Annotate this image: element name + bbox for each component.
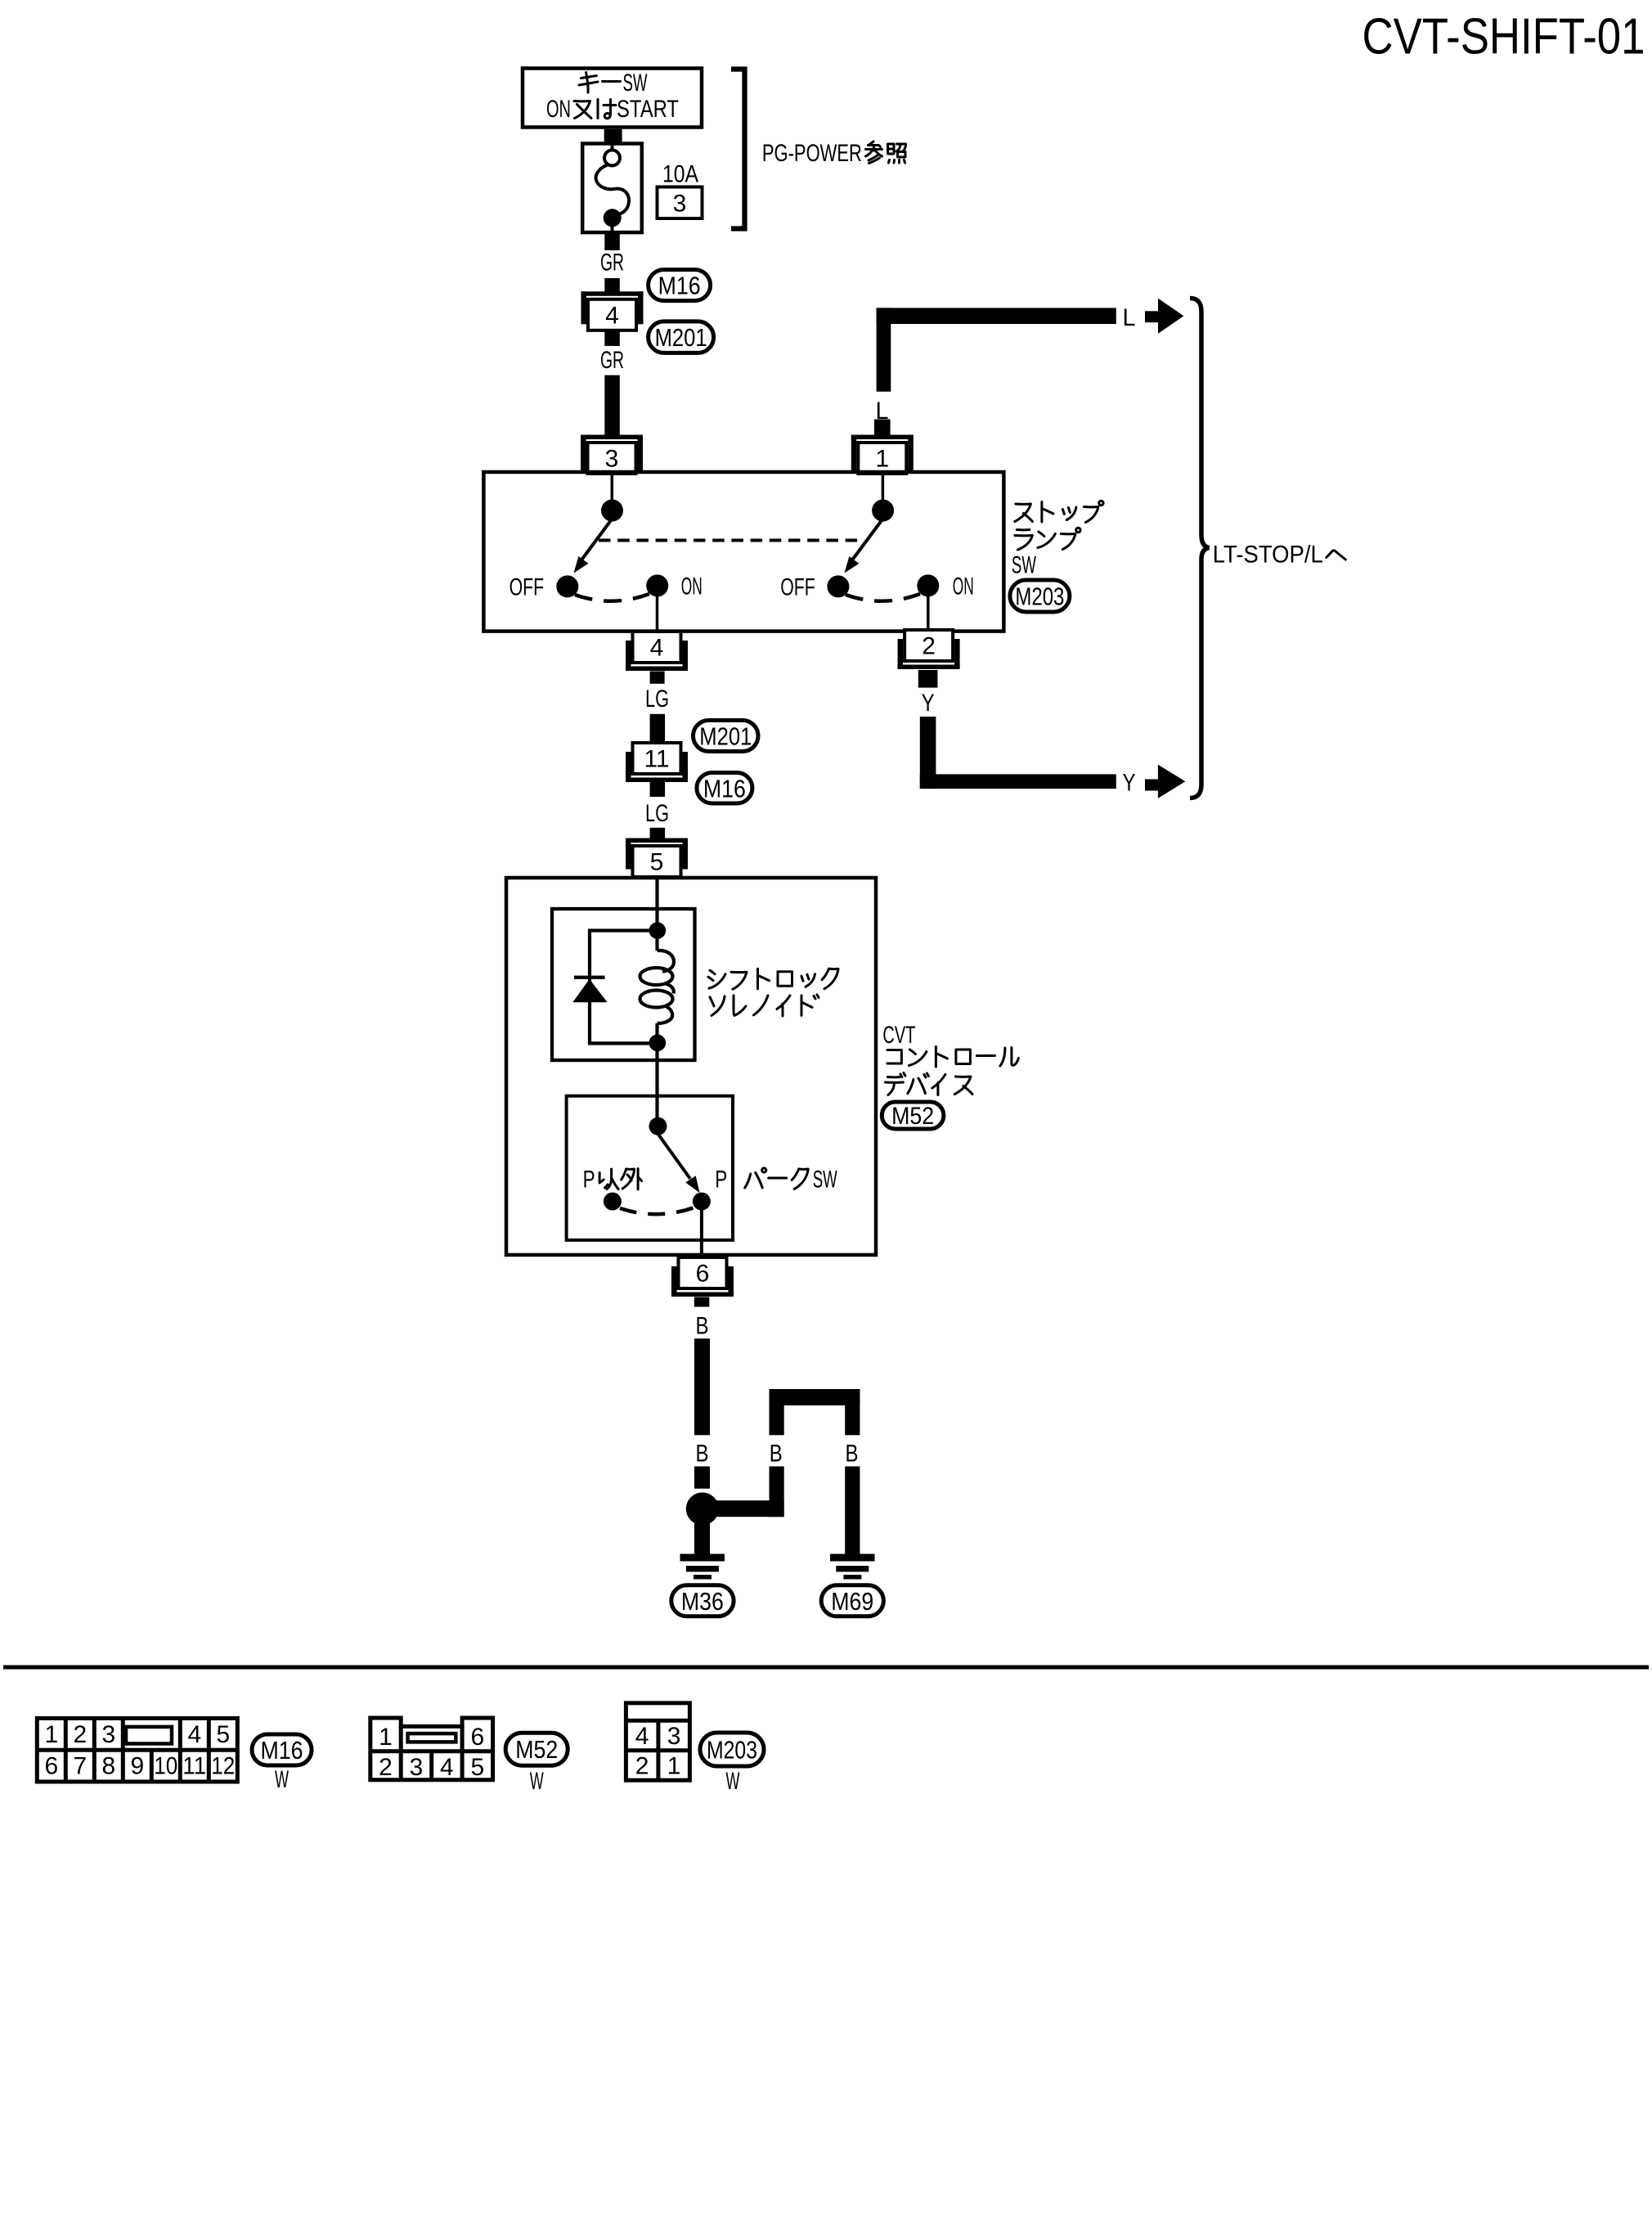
connector pin 4 of stop lamp SW <box>633 632 681 663</box>
svg-text:LG: LG <box>645 686 669 713</box>
solenoid top node <box>649 922 667 939</box>
connector name oval M16 (table) <box>252 1734 312 1765</box>
park switch pivot contact <box>649 1117 667 1135</box>
park switch arm (arrow to P) <box>658 1134 691 1179</box>
svg-text:CVT-SHIFT-01: CVT-SHIFT-01 <box>1362 9 1645 65</box>
thick wire GR down to stop lamp switch <box>604 375 620 435</box>
wire stub above connector 5 <box>650 828 666 839</box>
wire stub above connector 1 <box>874 420 891 436</box>
right OFF contact <box>827 575 849 597</box>
ground symbol left <box>680 1554 725 1580</box>
svg-text:4: 4 <box>650 635 664 662</box>
arrow L (off-page to LT-STOP/L) <box>1145 311 1159 322</box>
svg-text:12: 12 <box>211 1753 235 1780</box>
svg-text:P: P <box>715 1167 727 1194</box>
diode D (flyback) <box>574 976 605 979</box>
svg-text:W: W <box>275 1766 289 1793</box>
separator rule <box>3 1666 1649 1670</box>
wire junction horizontal arm <box>712 1500 784 1517</box>
svg-text:3: 3 <box>605 446 619 473</box>
svg-text:LT-STOP/L: LT-STOP/L <box>1213 542 1323 569</box>
svg-text:2: 2 <box>922 633 936 660</box>
svg-text:GR: GR <box>600 250 624 277</box>
wire park P contact to pin 6 <box>700 1210 703 1257</box>
svg-text:2: 2 <box>379 1754 393 1781</box>
stop lamp switch box M203 <box>483 472 1003 632</box>
svg-text:1: 1 <box>667 1753 681 1780</box>
label park SW <box>745 1168 809 1189</box>
svg-text:M69: M69 <box>831 1587 873 1616</box>
svg-text:CVT: CVT <box>882 1022 915 1049</box>
wire stub below pin 4 <box>650 672 665 684</box>
key slot M52 <box>408 1733 456 1742</box>
thick wire Y (vertical) <box>920 717 936 789</box>
svg-text:5: 5 <box>650 849 664 876</box>
fuse F 10A (box 3) <box>582 144 642 233</box>
svg-text:3: 3 <box>673 191 687 218</box>
svg-text:5: 5 <box>216 1721 230 1748</box>
svg-text:4: 4 <box>605 302 619 329</box>
svg-text:Y: Y <box>1123 770 1136 797</box>
label CVT control device (device) <box>885 1073 972 1095</box>
connector pin 6 of CVT control device <box>679 1257 727 1288</box>
connector pin layout M16 <box>37 1718 237 1782</box>
left switch arm (arrow to OFF) <box>578 519 613 564</box>
svg-text:M16: M16 <box>658 272 701 300</box>
svg-text:GR: GR <box>600 347 624 374</box>
wire middle leg vertical <box>770 1467 784 1517</box>
connector name oval M201 <box>694 721 759 752</box>
left OFF contact <box>556 575 578 597</box>
left ON contact <box>646 574 668 596</box>
svg-text:M203: M203 <box>707 1736 757 1765</box>
dashed link line between switch poles <box>599 539 860 542</box>
svg-text:11: 11 <box>182 1753 206 1780</box>
svg-text:OFF: OFF <box>510 574 545 601</box>
svg-text:10A: 10A <box>662 161 698 188</box>
svg-text:SW: SW <box>1012 552 1036 579</box>
right switch pole wire from pin 1 <box>882 474 885 503</box>
svg-text:2: 2 <box>635 1753 649 1780</box>
ground name oval M69 <box>821 1585 883 1616</box>
wire ON contact to pin 2 <box>927 596 930 630</box>
label stop lamp SW (stop) <box>1015 501 1103 522</box>
svg-text:6: 6 <box>696 1261 710 1288</box>
power source box: key SW ON or START <box>523 69 702 128</box>
label stop lamp SW (lamp) <box>1015 528 1080 550</box>
label shift lock solenoid (line 2) <box>710 995 819 1016</box>
connector pin 5 of CVT control device <box>626 839 688 843</box>
wire ON contact to pin 4 <box>656 596 659 630</box>
dashed throw arc (right switch) <box>846 594 920 601</box>
svg-text:M16: M16 <box>703 774 746 803</box>
park P contact <box>693 1193 711 1211</box>
connector name oval M203 <box>1010 580 1070 612</box>
svg-text:B: B <box>696 1313 709 1340</box>
svg-text:M16: M16 <box>261 1736 303 1765</box>
svg-text:5: 5 <box>471 1754 485 1781</box>
wire pin 5 to solenoid <box>655 876 658 924</box>
svg-text:4: 4 <box>187 1721 201 1748</box>
ground name oval M36 <box>671 1585 734 1616</box>
park switch sub-box <box>567 1096 733 1240</box>
wire n-bridge (left leg) <box>770 1389 784 1418</box>
connector name oval M16 <box>649 270 711 301</box>
wire stub above junction <box>694 1467 710 1489</box>
thick wire Y (horizontal) <box>920 774 1116 789</box>
wire solenoid to park SW <box>655 1051 658 1117</box>
dashed throw arc (left switch) <box>575 594 649 601</box>
svg-text:Y: Y <box>922 690 935 717</box>
connector pin 2 of stop lamp SW <box>905 630 953 661</box>
thick wire L to LT-STOP/L (horizontal) <box>877 308 1116 324</box>
wire stub below connector 11 <box>650 782 666 797</box>
svg-text:4: 4 <box>440 1754 454 1781</box>
key slot M16 <box>126 1727 172 1744</box>
svg-text:L: L <box>1123 304 1136 331</box>
connector joint 4 (M16 to M201) <box>581 291 644 296</box>
label CVT control device (control) <box>887 1047 1019 1068</box>
wire junction to left ground <box>694 1523 710 1554</box>
wire n-bridge (top) <box>770 1389 860 1405</box>
brace to LT-STOP/L <box>1190 299 1210 798</box>
svg-text:SW: SW <box>813 1167 837 1194</box>
svg-text:11: 11 <box>644 746 670 773</box>
svg-text:M52: M52 <box>891 1103 934 1130</box>
svg-text:6: 6 <box>44 1753 58 1780</box>
connector pin layout M203 <box>626 1703 689 1780</box>
svg-text:4: 4 <box>635 1723 649 1750</box>
svg-text:B: B <box>696 1441 709 1468</box>
diode branch wiring <box>590 931 658 1044</box>
fuse number box 3 <box>658 187 703 219</box>
svg-text:B: B <box>846 1441 859 1468</box>
wire stub above connector 4 <box>604 278 620 292</box>
svg-text:8: 8 <box>101 1753 115 1780</box>
svg-text:9: 9 <box>130 1753 144 1780</box>
solenoid bottom node <box>649 1035 667 1052</box>
park non-P contact <box>604 1193 622 1211</box>
connector name oval M201 <box>649 321 714 353</box>
wire right leg to ground <box>845 1467 860 1554</box>
wire stub below fuse <box>604 234 620 250</box>
svg-text:ON: ON <box>681 573 703 600</box>
CVT control device box M52 <box>506 878 876 1255</box>
wire stub below connector 2 <box>918 670 938 688</box>
dashed throw arc (park SW) <box>620 1207 694 1214</box>
connector pin layout M52 <box>370 1718 493 1781</box>
thick wire L to LT-STOP/L (vertical) <box>877 308 891 391</box>
svg-text:SW: SW <box>623 70 648 97</box>
arrow Y (off-page to LT-STOP/L) <box>1145 780 1158 791</box>
wire stub: key SW box to fuse <box>604 129 622 142</box>
svg-text:3: 3 <box>101 1721 115 1748</box>
right switch pivot contact <box>872 500 894 522</box>
svg-text:6: 6 <box>471 1724 485 1751</box>
connector name oval M203 (table) <box>700 1733 764 1766</box>
svg-text:M201: M201 <box>655 323 707 352</box>
wire stub below pin 6 <box>694 1297 710 1307</box>
wire stub below connector 4 <box>604 331 620 346</box>
ground junction node <box>686 1492 719 1525</box>
svg-text:B: B <box>770 1441 783 1468</box>
wire middle leg upper stub <box>770 1418 784 1436</box>
svg-text:ON: ON <box>546 96 571 123</box>
svg-text:P: P <box>583 1167 595 1194</box>
svg-text:7: 7 <box>73 1753 87 1780</box>
solenoid coil L <box>640 938 675 1035</box>
connector name oval M52 <box>882 1102 944 1129</box>
wire n-bridge (right leg stub) <box>845 1389 860 1435</box>
svg-text:3: 3 <box>410 1754 424 1781</box>
svg-text:1: 1 <box>379 1724 393 1751</box>
shift lock solenoid sub-box <box>552 909 695 1060</box>
svg-text:M52: M52 <box>515 1735 558 1764</box>
svg-text:10: 10 <box>154 1753 177 1780</box>
thick wire B down <box>694 1338 710 1435</box>
connector joint 11 (M201 to M16) <box>633 743 681 774</box>
connector name oval M16 <box>697 773 752 804</box>
svg-text:M36: M36 <box>681 1587 724 1616</box>
svg-text:1: 1 <box>44 1721 58 1748</box>
svg-text:2: 2 <box>73 1721 87 1748</box>
connector pin 3 of stop lamp SW <box>581 435 643 440</box>
right ON contact <box>917 574 939 596</box>
svg-text:START: START <box>617 96 679 123</box>
right switch arm (arrow to OFF) <box>849 519 883 564</box>
connector name oval M52 (table) <box>505 1733 568 1765</box>
svg-text:W: W <box>530 1768 544 1795</box>
svg-text:M201: M201 <box>699 722 752 751</box>
connector pin 1 of stop lamp SW <box>851 435 914 440</box>
ground symbol right <box>830 1554 875 1580</box>
svg-text:M203: M203 <box>1015 582 1064 611</box>
label shift lock solenoid (line 1) <box>708 969 838 989</box>
svg-text:1: 1 <box>875 446 889 473</box>
svg-text:PG-POWER: PG-POWER <box>762 140 862 167</box>
svg-text:OFF: OFF <box>780 574 815 601</box>
left switch pivot contact <box>601 500 623 522</box>
svg-text:LG: LG <box>645 800 669 827</box>
svg-text:W: W <box>726 1768 740 1795</box>
svg-text:ON: ON <box>953 573 974 600</box>
svg-text:3: 3 <box>667 1723 681 1750</box>
bracket PG-POWER <box>731 70 745 229</box>
thick wire LG to connector 11 <box>650 714 666 743</box>
left switch pole wire from pin 3 <box>611 474 614 503</box>
